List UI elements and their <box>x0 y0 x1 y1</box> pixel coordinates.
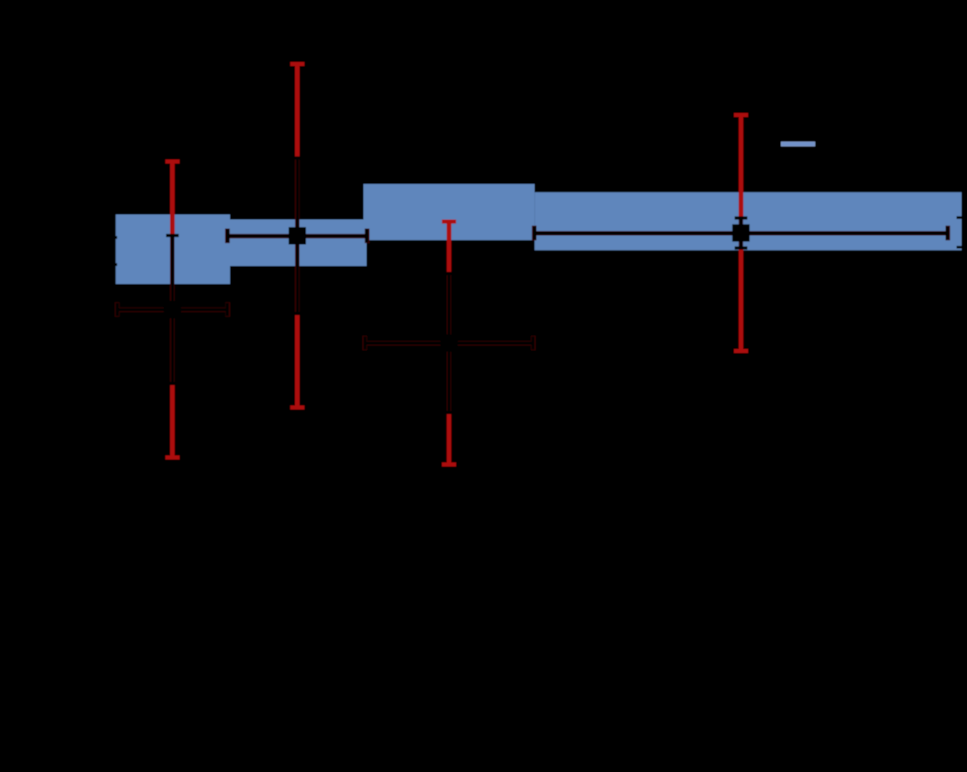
dark red underlay of black Y error bar C2 <box>295 158 299 314</box>
bar B1 (blue range bar, group 1) <box>116 215 230 285</box>
black X error bar C1 cap left <box>116 303 119 316</box>
clipped cluster C5 black Y caps (right edge notches over bar B4) <box>957 216 963 219</box>
black Y error bar C4 cap top <box>735 216 748 219</box>
black X error bar C4 cap right <box>946 226 949 239</box>
black Y error bar C1 cap bottom <box>166 382 179 385</box>
black X error bar C3 cap right <box>531 336 534 349</box>
black X error bar C2 cap right <box>365 229 368 242</box>
red Y error bar C4 cap top <box>734 113 748 117</box>
red Y error bar C4 (lower segment) <box>739 248 744 353</box>
dark red underlay of black Y error bar C4 <box>739 218 743 248</box>
dark red underlay of black X error bar C4 <box>535 231 948 235</box>
bar B2 (blue range bar, group 2) <box>230 220 367 267</box>
bar B3 (blue range bar, group 3) <box>364 184 535 240</box>
black X error bar C4 <box>535 232 948 235</box>
black Y error bar C3 cap bottom <box>443 411 456 414</box>
red Y error bar C3 (lower segment) <box>447 413 452 467</box>
cluster C1 <box>115 160 230 460</box>
red Y error bar C1 (upper segment) <box>170 160 175 236</box>
black X error bar C1 <box>117 308 227 311</box>
black Y error bar C2 cap bottom <box>291 312 304 315</box>
dark red underlay of black Y error bar C3 <box>447 274 451 413</box>
black Y error bar C2 <box>296 158 299 314</box>
black X error bar C3 <box>365 342 533 345</box>
red Y error bar C2 (lower segment) <box>295 314 300 410</box>
marker M3 (black square) <box>440 334 457 351</box>
marker M1 (black square) <box>164 301 181 318</box>
dark red underlay of black Y error bar C1 <box>170 236 174 384</box>
black Y error bar C1 cap top <box>166 234 179 237</box>
red Y error bar C3 cap bottom <box>442 462 456 466</box>
black Y error bar C4 <box>740 218 743 248</box>
red Y error bar C4 cap bottom <box>734 349 748 353</box>
red Y error bar C1 cap top <box>165 160 179 164</box>
black X error bar C2 cap left <box>226 229 229 242</box>
black X error bar C2 <box>228 235 367 238</box>
black X error bar C3 cap left <box>363 336 366 349</box>
red Y error bar C3 (upper segment) <box>447 220 452 274</box>
red Y error bar C2 (upper segment) <box>295 62 300 158</box>
black Y error bar C2 cap top <box>291 156 304 159</box>
dark red underlay of black X error bar C3 <box>365 341 533 345</box>
marker M4 (black square) <box>732 224 749 241</box>
red Y error bar C2 cap bottom <box>290 405 304 409</box>
red Y error bar C1 cap bottom <box>165 455 179 459</box>
bar B4 (blue range bar, group 4) <box>535 192 962 250</box>
marker M2 (black square) <box>289 227 306 244</box>
red Y error bar C3 cap top <box>442 220 456 224</box>
red Y error bar C1 (lower segment) <box>170 384 175 460</box>
black Y error bar C3 cap top <box>443 272 456 275</box>
black Y error bar C4 cap bottom <box>735 246 748 249</box>
black X error bar C4 cap left <box>533 226 536 239</box>
cluster C2 <box>225 62 369 410</box>
cluster C4 <box>532 113 950 353</box>
black Y error bar C3 <box>448 274 451 413</box>
clipped cluster C0 black Y caps (left edge notches over bar B1) <box>115 236 117 239</box>
red Y error bar C2 cap top <box>290 62 304 66</box>
black Y error bar C1 <box>171 236 174 384</box>
black X error bar C1 cap right <box>226 303 229 316</box>
legend key (blue dash) <box>781 142 815 146</box>
cluster C3 <box>362 220 535 467</box>
dark red underlay of black X error bar C1 <box>117 308 227 312</box>
red Y error bar C4 (upper segment) <box>739 113 744 218</box>
dark red underlay of black X error bar C2 <box>228 234 367 238</box>
